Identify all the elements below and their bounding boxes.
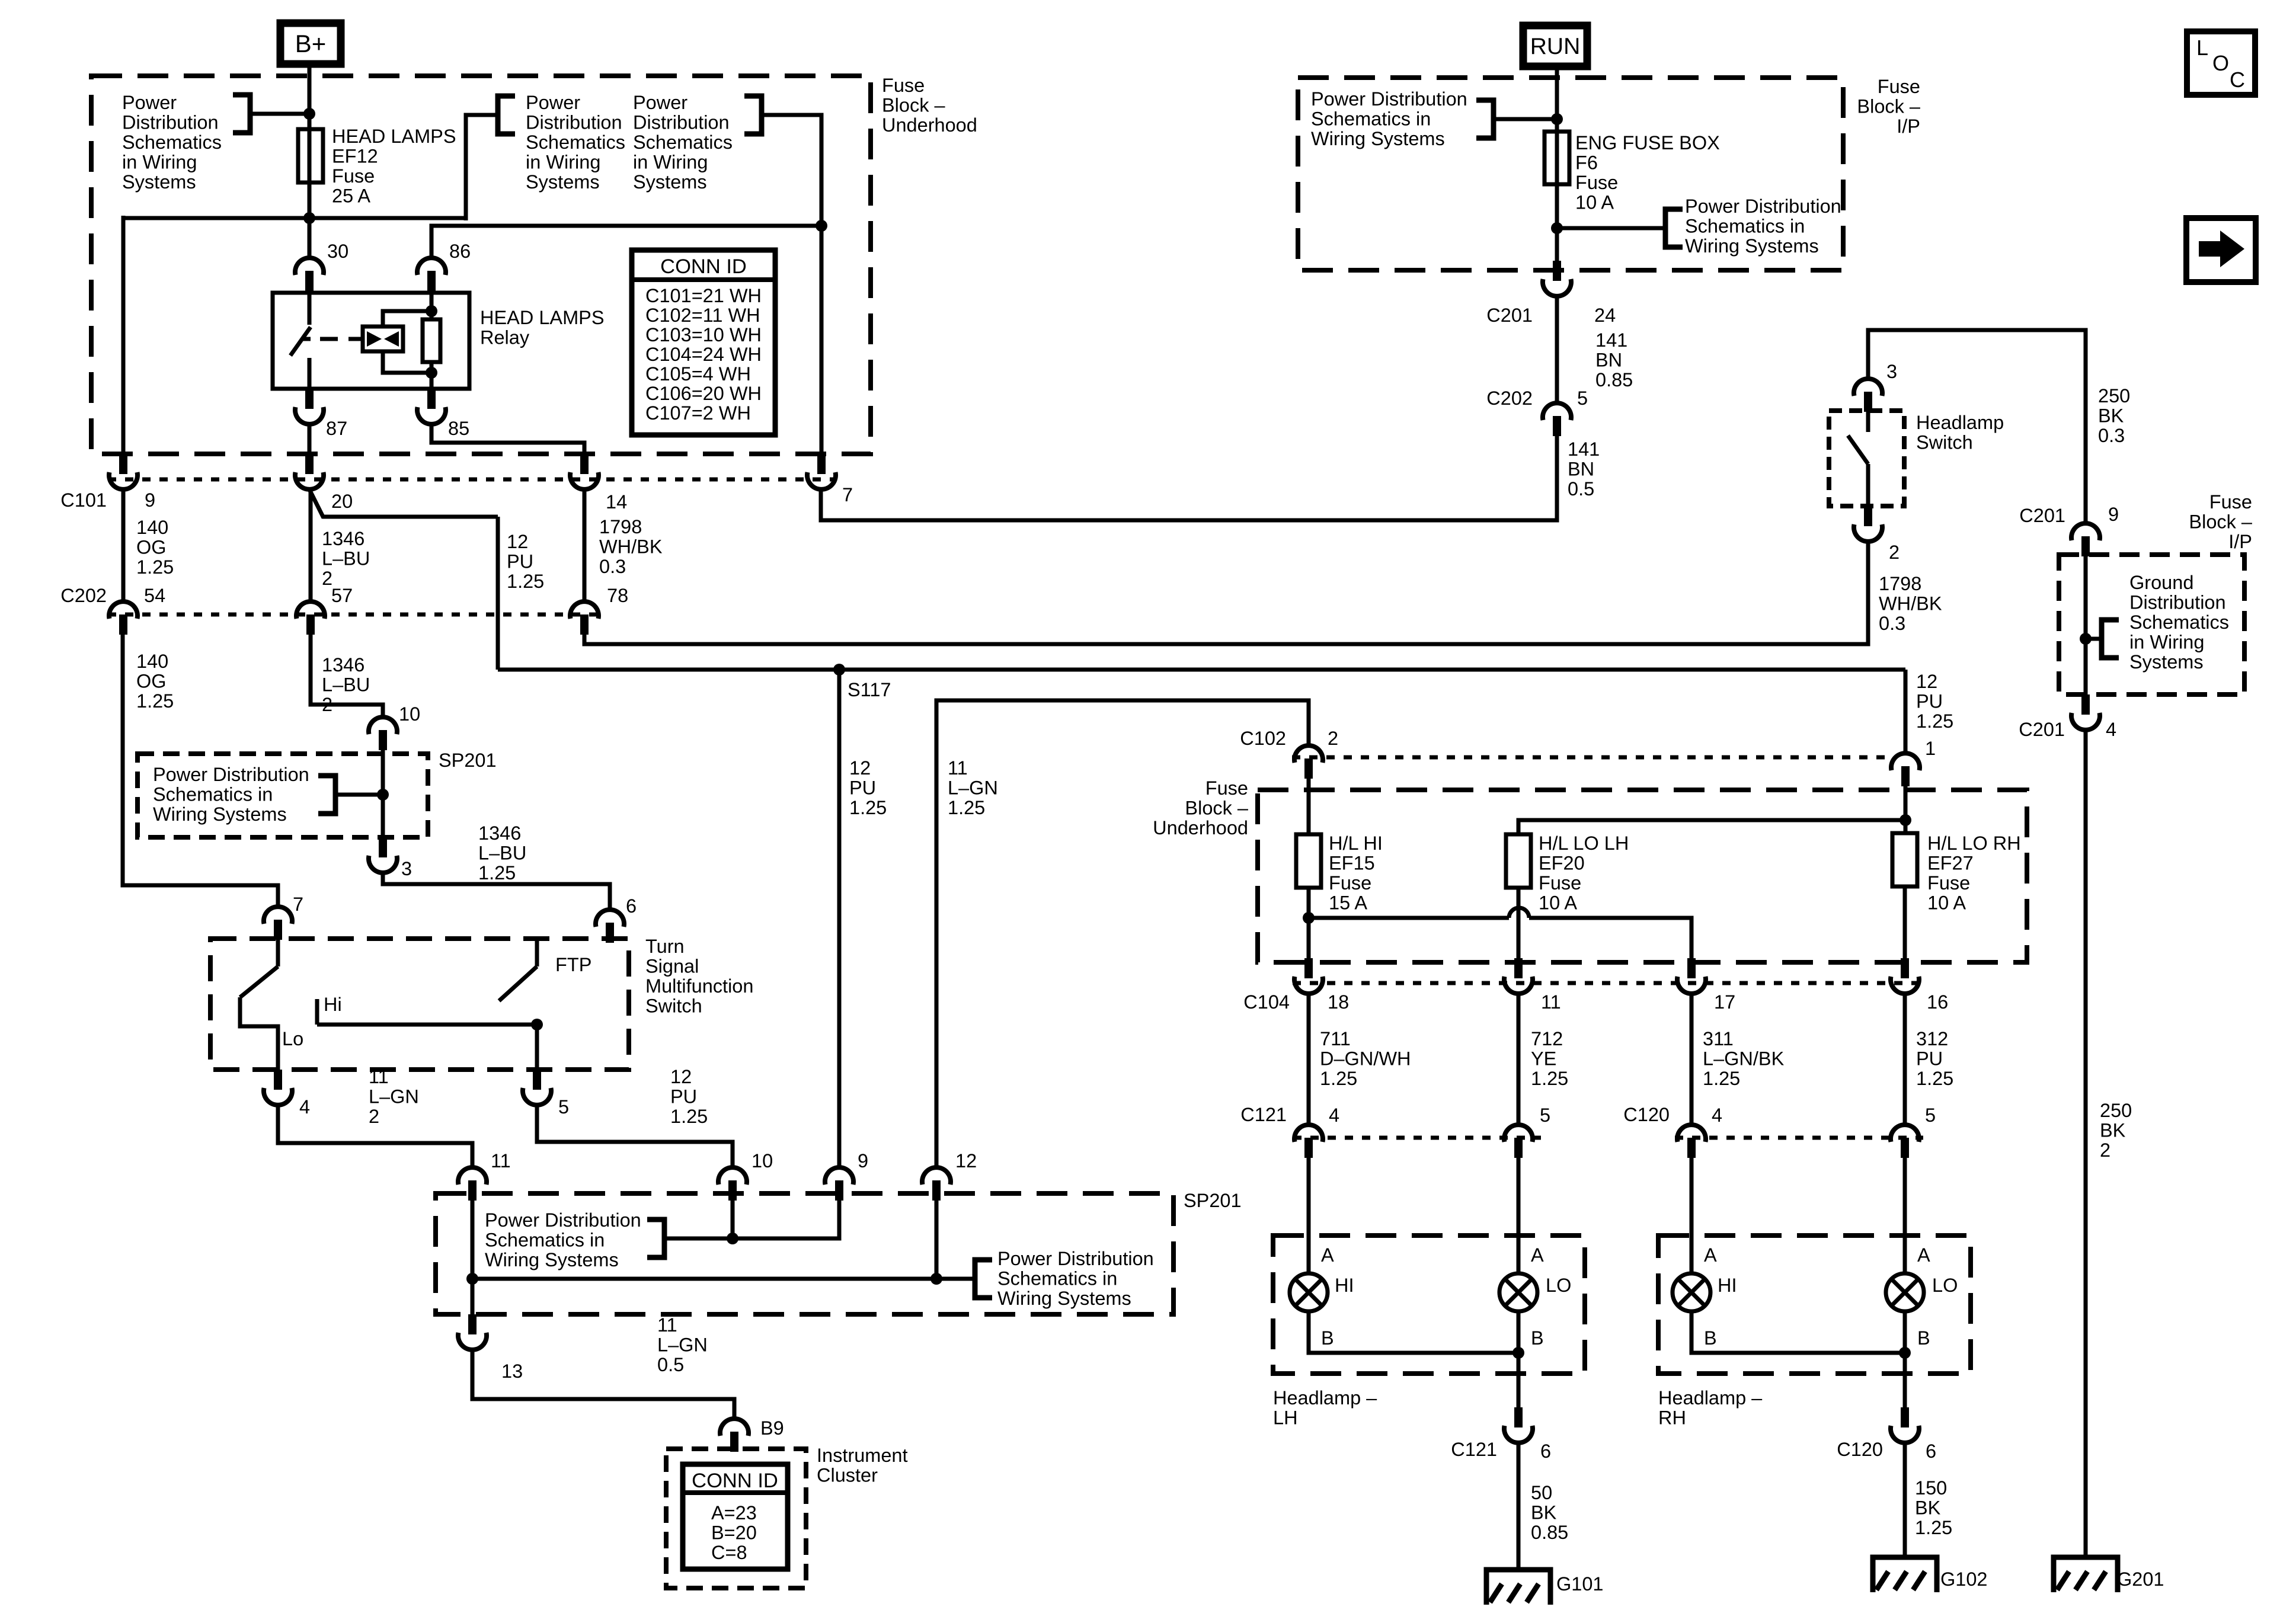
svg-text:15 A: 15 A <box>1329 892 1367 914</box>
svg-text:LH: LH <box>1273 1407 1298 1429</box>
node splice S117 <box>833 664 845 676</box>
label wire 12 PU 1.25 right <box>1916 671 1953 759</box>
svg-text:Power Distribution: Power Distribution <box>153 764 309 785</box>
wire 87 to C101-20 <box>308 424 312 454</box>
label pin 7 <box>842 484 853 505</box>
connector C202 pin 57 <box>296 601 325 635</box>
svg-text:Power Distribution: Power Distribution <box>997 1248 1154 1269</box>
ground G201 <box>2054 1557 2118 1592</box>
label C121-6 <box>1451 1439 1551 1462</box>
svg-text:Fuse: Fuse <box>1927 872 1970 894</box>
label switch pin 7 <box>293 894 303 915</box>
svg-text:G101: G101 <box>1556 1573 1604 1595</box>
wire riser to bracket 2 <box>466 115 495 220</box>
label wire 311 <box>1703 1028 1785 1089</box>
svg-text:Switch: Switch <box>645 996 702 1017</box>
svg-text:86: 86 <box>449 241 471 262</box>
connector C202 pin 54 <box>109 601 137 635</box>
svg-text:B: B <box>1917 1327 1930 1349</box>
reference bracket RUN-2 <box>1665 209 1683 247</box>
wire C101-9 to C202-54 <box>121 490 126 600</box>
node SP201 junction <box>377 789 389 801</box>
fuse EF20 <box>1506 834 1531 888</box>
lamp RH HI <box>1673 1273 1710 1311</box>
label fuse F6 <box>1575 132 1720 213</box>
svg-text:1.25: 1.25 <box>1915 1517 1952 1538</box>
svg-text:Wiring Systems: Wiring Systems <box>153 804 287 825</box>
label FTP <box>555 954 591 975</box>
svg-text:RUN: RUN <box>1530 34 1581 59</box>
relay switch blade <box>290 327 311 356</box>
ground G101 <box>1486 1570 1550 1605</box>
svg-text:12: 12 <box>670 1066 692 1087</box>
connector SP201b pin 10 <box>718 1167 747 1201</box>
wire SP201b bus <box>472 1198 973 1314</box>
svg-text:C120: C120 <box>1837 1439 1883 1460</box>
node LH B junction <box>1512 1347 1524 1359</box>
connector switch pin 6 <box>596 910 624 943</box>
connector C121 pin 4 <box>1294 1125 1323 1158</box>
svg-text:9: 9 <box>2108 504 2119 525</box>
svg-text:Schematics in: Schematics in <box>153 784 273 805</box>
label fuse block underhood <box>882 75 977 136</box>
svg-text:18: 18 <box>1328 991 1349 1013</box>
svg-text:Headlamp –: Headlamp – <box>1658 1387 1763 1409</box>
label wire 11 L-GN 0.5 <box>657 1314 708 1375</box>
wire Lo zigzag <box>240 997 278 1070</box>
svg-text:D–GN/WH: D–GN/WH <box>1320 1048 1411 1070</box>
connector C201 pin 1 <box>1891 753 1920 786</box>
svg-text:I/P: I/P <box>1897 116 1920 137</box>
svg-text:CONN ID: CONN ID <box>660 255 747 278</box>
relay HEAD LAMPS box <box>273 293 469 389</box>
wire LH B bus <box>1309 1311 1518 1409</box>
wire SP201 stem <box>381 750 385 837</box>
svg-text:0.3: 0.3 <box>2098 425 2125 446</box>
svg-text:11: 11 <box>491 1150 511 1172</box>
svg-text:Systems: Systems <box>526 171 600 193</box>
svg-text:0.3: 0.3 <box>599 556 626 577</box>
svg-text:BK: BK <box>2100 1120 2126 1141</box>
svg-text:Underhood: Underhood <box>1153 817 1248 838</box>
fuse block IP border <box>1298 78 1843 270</box>
svg-text:Schematics: Schematics <box>2129 612 2229 633</box>
svg-text:1.25: 1.25 <box>1916 1068 1953 1089</box>
wire 11 down <box>1517 994 1521 1124</box>
svg-text:85: 85 <box>448 418 469 439</box>
label wire 11 L-GN 2 <box>369 1066 419 1127</box>
wire C121-5 to lamp <box>1517 1158 1521 1273</box>
svg-text:1.25: 1.25 <box>670 1106 708 1127</box>
connector row C121 dotted <box>1293 1136 1541 1140</box>
connector switch pin 5 <box>523 1070 551 1105</box>
svg-text:WH/BK: WH/BK <box>1879 593 1942 614</box>
label wire 712 <box>1531 1028 1568 1089</box>
label power distribution 2 <box>526 92 625 193</box>
svg-text:Underhood: Underhood <box>882 114 977 136</box>
wire pins 9-10 to bracket <box>667 1198 839 1238</box>
label G102 <box>1940 1569 1988 1590</box>
wire C121-4 to lamp <box>1307 1158 1311 1273</box>
svg-text:1.25: 1.25 <box>1320 1068 1357 1089</box>
node coil-resistor bottom <box>426 367 437 379</box>
svg-text:Wiring Systems: Wiring Systems <box>997 1288 1131 1309</box>
wire switch 6 inner <box>535 939 539 966</box>
connector C201 pin 4 <box>2071 694 2100 730</box>
connector C104 pin 11 <box>1504 958 1533 994</box>
connector C102 pin 2 <box>1294 745 1323 779</box>
label switch pin 4 <box>299 1096 310 1118</box>
svg-text:Ground: Ground <box>2129 572 2193 593</box>
wire bracket to SP201 stem <box>338 793 383 797</box>
svg-text:Instrument: Instrument <box>817 1445 908 1466</box>
label C120 <box>1623 1104 1670 1125</box>
LOC reference box <box>2187 31 2255 95</box>
svg-text:B+: B+ <box>295 30 327 57</box>
wire relay 87 lower contact <box>308 358 312 389</box>
svg-text:Fuse: Fuse <box>1329 872 1371 894</box>
wire RH B bus <box>1691 1311 1905 1409</box>
label pin 10b <box>752 1150 773 1172</box>
svg-text:Wiring Systems: Wiring Systems <box>1685 235 1819 257</box>
svg-text:PU: PU <box>507 551 533 572</box>
label fuse block IP <box>1857 76 1921 137</box>
table CONN ID cluster <box>683 1464 788 1569</box>
label power distribution SP201b-right <box>997 1248 1154 1309</box>
wire switch 7 inner <box>276 939 280 966</box>
label RH HI <box>1718 1275 1737 1296</box>
wire 86 internal <box>430 293 434 319</box>
node ground junction <box>2080 633 2092 645</box>
label C120-5 <box>1925 1105 1936 1126</box>
label pin 11b <box>1541 991 1561 1013</box>
label RH HI A <box>1704 1244 1717 1266</box>
reference bracket SP201b-left <box>647 1219 664 1257</box>
label pin 87 <box>326 418 347 439</box>
svg-text:G201: G201 <box>2117 1569 2164 1590</box>
svg-text:10: 10 <box>399 703 420 725</box>
svg-text:57: 57 <box>331 585 353 606</box>
label HEAD LAMPS Relay <box>480 307 605 348</box>
label pin 12 <box>955 1150 977 1172</box>
label wire 312 <box>1916 1028 1953 1089</box>
svg-text:Turn: Turn <box>645 936 685 957</box>
wire pin4 to SP201 pin 11 <box>278 1105 472 1166</box>
connector row C104 dotted <box>1293 981 1920 985</box>
wire B+ to relay 30 <box>308 64 312 257</box>
node junction below EF12 <box>303 212 315 224</box>
label switch pin 2 <box>1889 542 1900 563</box>
svg-text:2: 2 <box>369 1106 379 1127</box>
svg-text:1.25: 1.25 <box>507 571 544 592</box>
svg-text:LO: LO <box>1932 1275 1958 1296</box>
relay coil bowtie <box>367 331 399 347</box>
label wire 140 OG 1.25 upper <box>136 517 174 578</box>
splice pack SP201 box 2 <box>436 1193 1173 1314</box>
label wire 250 BK 2 <box>2100 1100 2132 1161</box>
wire C102-2 to EF15 <box>1307 779 1311 834</box>
label C120-4 <box>1712 1105 1722 1126</box>
wire ground box stem <box>2084 556 2088 694</box>
label pin 9b <box>858 1150 868 1172</box>
wire to bracket RUN-2 <box>1557 226 1663 231</box>
connector C101 pin 7 <box>807 454 836 489</box>
connector C101 pin 14 <box>570 454 599 489</box>
svg-text:9: 9 <box>858 1150 868 1172</box>
table CONN ID underhood <box>632 250 775 435</box>
switch FTP blade <box>499 966 537 1001</box>
label pin 11 <box>491 1150 511 1172</box>
label power distribution SP201b-left <box>485 1209 641 1270</box>
svg-text:HEAD LAMPS: HEAD LAMPS <box>480 307 605 328</box>
svg-text:87: 87 <box>326 418 347 439</box>
wire pin10 tail <box>731 1198 735 1238</box>
svg-text:0.5: 0.5 <box>657 1354 684 1375</box>
svg-text:4: 4 <box>2106 719 2116 740</box>
svg-text:Fuse: Fuse <box>882 75 925 96</box>
svg-text:A: A <box>1704 1244 1717 1266</box>
label C121 <box>1240 1104 1287 1125</box>
svg-text:Multifunction: Multifunction <box>645 975 753 997</box>
svg-text:1.25: 1.25 <box>849 797 887 818</box>
svg-text:20: 20 <box>331 491 353 512</box>
svg-text:17: 17 <box>1714 991 1735 1013</box>
connector row C120 dotted <box>1675 1136 1923 1140</box>
svg-text:312: 312 <box>1916 1028 1948 1049</box>
label C102-2 <box>1240 728 1338 749</box>
splice pack SP201 box <box>137 754 428 837</box>
wire to G102 <box>1903 1443 1907 1557</box>
connector C104 pin 17 <box>1677 958 1706 994</box>
svg-text:in Wiring: in Wiring <box>526 152 600 173</box>
svg-text:C107=2 WH: C107=2 WH <box>645 402 751 424</box>
label wire 141 BN 0.85 <box>1595 329 1633 391</box>
svg-text:C103=10 WH: C103=10 WH <box>645 324 762 345</box>
wire 85 to C101-14 <box>431 424 584 454</box>
svg-text:1.25: 1.25 <box>478 862 516 884</box>
label LH HI B <box>1321 1327 1334 1349</box>
svg-text:1: 1 <box>1925 738 1936 759</box>
svg-text:L–GN: L–GN <box>369 1086 419 1108</box>
label pin 16 <box>1927 991 1948 1013</box>
wire S117 bus <box>498 668 1905 672</box>
svg-text:7: 7 <box>293 894 303 915</box>
label pin 3 <box>401 858 412 879</box>
svg-text:2: 2 <box>2100 1140 2110 1161</box>
connector SP201 pin 3 <box>369 837 397 873</box>
relay actuation dashed link <box>320 337 363 341</box>
label power distribution RUN-2 <box>1685 196 1841 257</box>
wire EF20 out <box>1517 888 1521 958</box>
svg-text:A: A <box>1531 1244 1544 1266</box>
svg-text:Power: Power <box>122 92 177 113</box>
svg-text:Block –: Block – <box>882 95 946 116</box>
svg-text:50: 50 <box>1531 1482 1552 1503</box>
label C104 <box>1243 991 1290 1013</box>
svg-text:1798: 1798 <box>599 516 642 537</box>
connector C202 pin 78 <box>570 601 599 635</box>
node Hi junction <box>531 1019 543 1030</box>
svg-text:Fuse: Fuse <box>2209 491 2252 513</box>
wire C201-24 to C202-5 <box>1555 296 1559 402</box>
svg-text:WH/BK: WH/BK <box>599 536 663 558</box>
node EF27 top <box>1900 814 1911 826</box>
svg-text:RH: RH <box>1658 1407 1686 1429</box>
svg-text:0.85: 0.85 <box>1531 1522 1568 1543</box>
svg-text:Headlamp: Headlamp <box>1916 412 2004 433</box>
label pin 13 <box>501 1361 523 1382</box>
svg-text:1346: 1346 <box>322 528 364 549</box>
reference bracket SP201 <box>318 776 335 814</box>
label C202-5 <box>1486 388 1588 409</box>
connector switch pin 3 <box>1854 379 1882 412</box>
svg-text:C102: C102 <box>1240 728 1286 749</box>
svg-text:B9: B9 <box>760 1417 784 1439</box>
svg-text:1.25: 1.25 <box>948 797 985 818</box>
node junction pin 12 <box>930 1273 942 1285</box>
wire C101-20 to C202-57 <box>309 492 313 600</box>
svg-text:Schematics in: Schematics in <box>485 1230 605 1251</box>
svg-text:11: 11 <box>657 1314 677 1336</box>
svg-text:Wiring Systems: Wiring Systems <box>1311 128 1445 149</box>
wire to G101 <box>1517 1443 1521 1570</box>
label RH HI B <box>1704 1327 1717 1349</box>
label pin 86 <box>449 241 471 262</box>
connector C121 pin 6 <box>1504 1407 1533 1443</box>
svg-text:L–BU: L–BU <box>322 548 370 569</box>
label RH LO <box>1932 1275 1958 1296</box>
relay coil box <box>363 327 403 351</box>
svg-text:C104=24 WH: C104=24 WH <box>645 344 762 365</box>
wire C201-1 to EF27 <box>1904 670 1908 833</box>
svg-text:Headlamp –: Headlamp – <box>1273 1387 1377 1409</box>
fuse block underhood 2 border <box>1258 790 2027 962</box>
lamp RH LO <box>1886 1273 1924 1311</box>
svg-text:Schematics in: Schematics in <box>1311 108 1431 130</box>
svg-text:CONN ID: CONN ID <box>692 1470 778 1492</box>
connector C121 pin 5 <box>1504 1125 1533 1158</box>
connector C101 pin 20 <box>295 454 324 489</box>
svg-text:Signal: Signal <box>645 956 699 977</box>
label power distribution 1 <box>122 92 222 193</box>
svg-text:3: 3 <box>1886 361 1897 382</box>
wire relay 86 feed <box>431 226 821 257</box>
svg-text:G102: G102 <box>1940 1569 1988 1590</box>
wire 12PU riser to S117 <box>496 517 500 670</box>
svg-text:Fuse: Fuse <box>332 165 375 187</box>
svg-text:H/L LO RH: H/L LO RH <box>1927 833 2021 854</box>
svg-text:Schematics in: Schematics in <box>997 1268 1117 1289</box>
svg-text:1.25: 1.25 <box>1531 1068 1568 1089</box>
label instrument cluster <box>817 1445 908 1486</box>
arrow reference box <box>2186 218 2256 282</box>
label pin 57 <box>331 585 353 606</box>
svg-text:Relay: Relay <box>480 327 530 348</box>
svg-text:1.25: 1.25 <box>1916 710 1953 732</box>
svg-text:5: 5 <box>1540 1105 1550 1126</box>
wire relay switch fixed contact <box>308 293 312 325</box>
label wire 12 PU 1.25 mid <box>849 757 887 818</box>
svg-text:1798: 1798 <box>1879 573 1921 594</box>
label wire 50 BK 0.85 <box>1531 1482 1568 1543</box>
svg-text:Schematics: Schematics <box>526 132 625 153</box>
svg-text:711: 711 <box>1320 1028 1351 1049</box>
svg-text:Distribution: Distribution <box>2129 592 2226 613</box>
svg-text:B=20: B=20 <box>711 1522 757 1544</box>
label wire 1346 L-BU 1.25 <box>478 822 526 884</box>
connector C201 pin 24 <box>1543 261 1571 296</box>
svg-text:5: 5 <box>1925 1105 1936 1126</box>
svg-text:C101: C101 <box>60 489 107 511</box>
svg-text:11: 11 <box>1541 991 1561 1013</box>
wire EF15 out <box>1307 888 1311 958</box>
label SP201 second <box>1184 1190 1242 1211</box>
fuse EF27 <box>1892 833 1917 886</box>
wire pin12 tail <box>935 1198 939 1279</box>
svg-text:C201: C201 <box>1486 305 1533 326</box>
node coil-resistor top <box>426 305 437 317</box>
wire S117 drop to pin 9 <box>837 670 842 1166</box>
wire to bracket RUN-1 <box>1496 117 1557 121</box>
label fuse block underhood 2 <box>1153 777 1249 838</box>
svg-text:6: 6 <box>626 895 637 917</box>
svg-text:PU: PU <box>1916 1048 1943 1070</box>
label headlamp switch <box>1916 412 2004 453</box>
svg-text:BN: BN <box>1568 459 1594 480</box>
svg-text:C105=4 WH: C105=4 WH <box>645 363 751 385</box>
label Lo <box>282 1028 303 1049</box>
svg-text:B: B <box>1321 1327 1334 1349</box>
svg-text:L–BU: L–BU <box>322 674 370 696</box>
label pin 20 <box>331 491 353 512</box>
wire pin13 to B9 <box>472 1350 734 1417</box>
svg-text:Schematics: Schematics <box>122 132 222 153</box>
svg-text:54: 54 <box>144 585 165 606</box>
label wire 711 <box>1320 1028 1411 1089</box>
node RH B junction <box>1899 1347 1911 1359</box>
pin 85 connector <box>417 389 446 424</box>
svg-text:Power Distribution: Power Distribution <box>1685 196 1841 217</box>
reference bracket 1 <box>233 95 250 133</box>
label fuse EF15 <box>1329 833 1383 914</box>
svg-text:PU: PU <box>1916 691 1943 712</box>
label SP201 <box>439 750 497 771</box>
wire C120-5 to lamp <box>1903 1158 1907 1273</box>
headlamp RH box <box>1658 1235 1971 1374</box>
svg-text:Systems: Systems <box>2129 651 2204 673</box>
svg-text:Power Distribution: Power Distribution <box>1311 88 1467 110</box>
svg-text:250: 250 <box>2100 1100 2132 1121</box>
wire RUN to C201-24 <box>1555 66 1559 261</box>
connector row C102 dotted <box>1292 756 1889 760</box>
wire to reference bracket 1 <box>252 112 306 116</box>
svg-text:Power Distribution: Power Distribution <box>485 1209 641 1231</box>
svg-text:Wiring Systems: Wiring Systems <box>485 1249 619 1270</box>
label turn signal switch <box>645 936 753 1017</box>
svg-text:14: 14 <box>606 491 627 513</box>
svg-text:in Wiring: in Wiring <box>122 152 197 173</box>
fuse block underhood border <box>91 76 871 454</box>
svg-text:Fuse: Fuse <box>1575 172 1618 193</box>
svg-text:L–GN: L–GN <box>948 777 998 799</box>
wire EF15 to C104-17 <box>1309 908 1691 958</box>
label pin 17 <box>1714 991 1735 1013</box>
label Hi <box>324 994 342 1015</box>
label fuse block IP 2 <box>2189 491 2253 552</box>
label pin 18 <box>1328 991 1349 1013</box>
svg-text:4: 4 <box>299 1096 310 1118</box>
fuse EF15 <box>1296 834 1321 888</box>
